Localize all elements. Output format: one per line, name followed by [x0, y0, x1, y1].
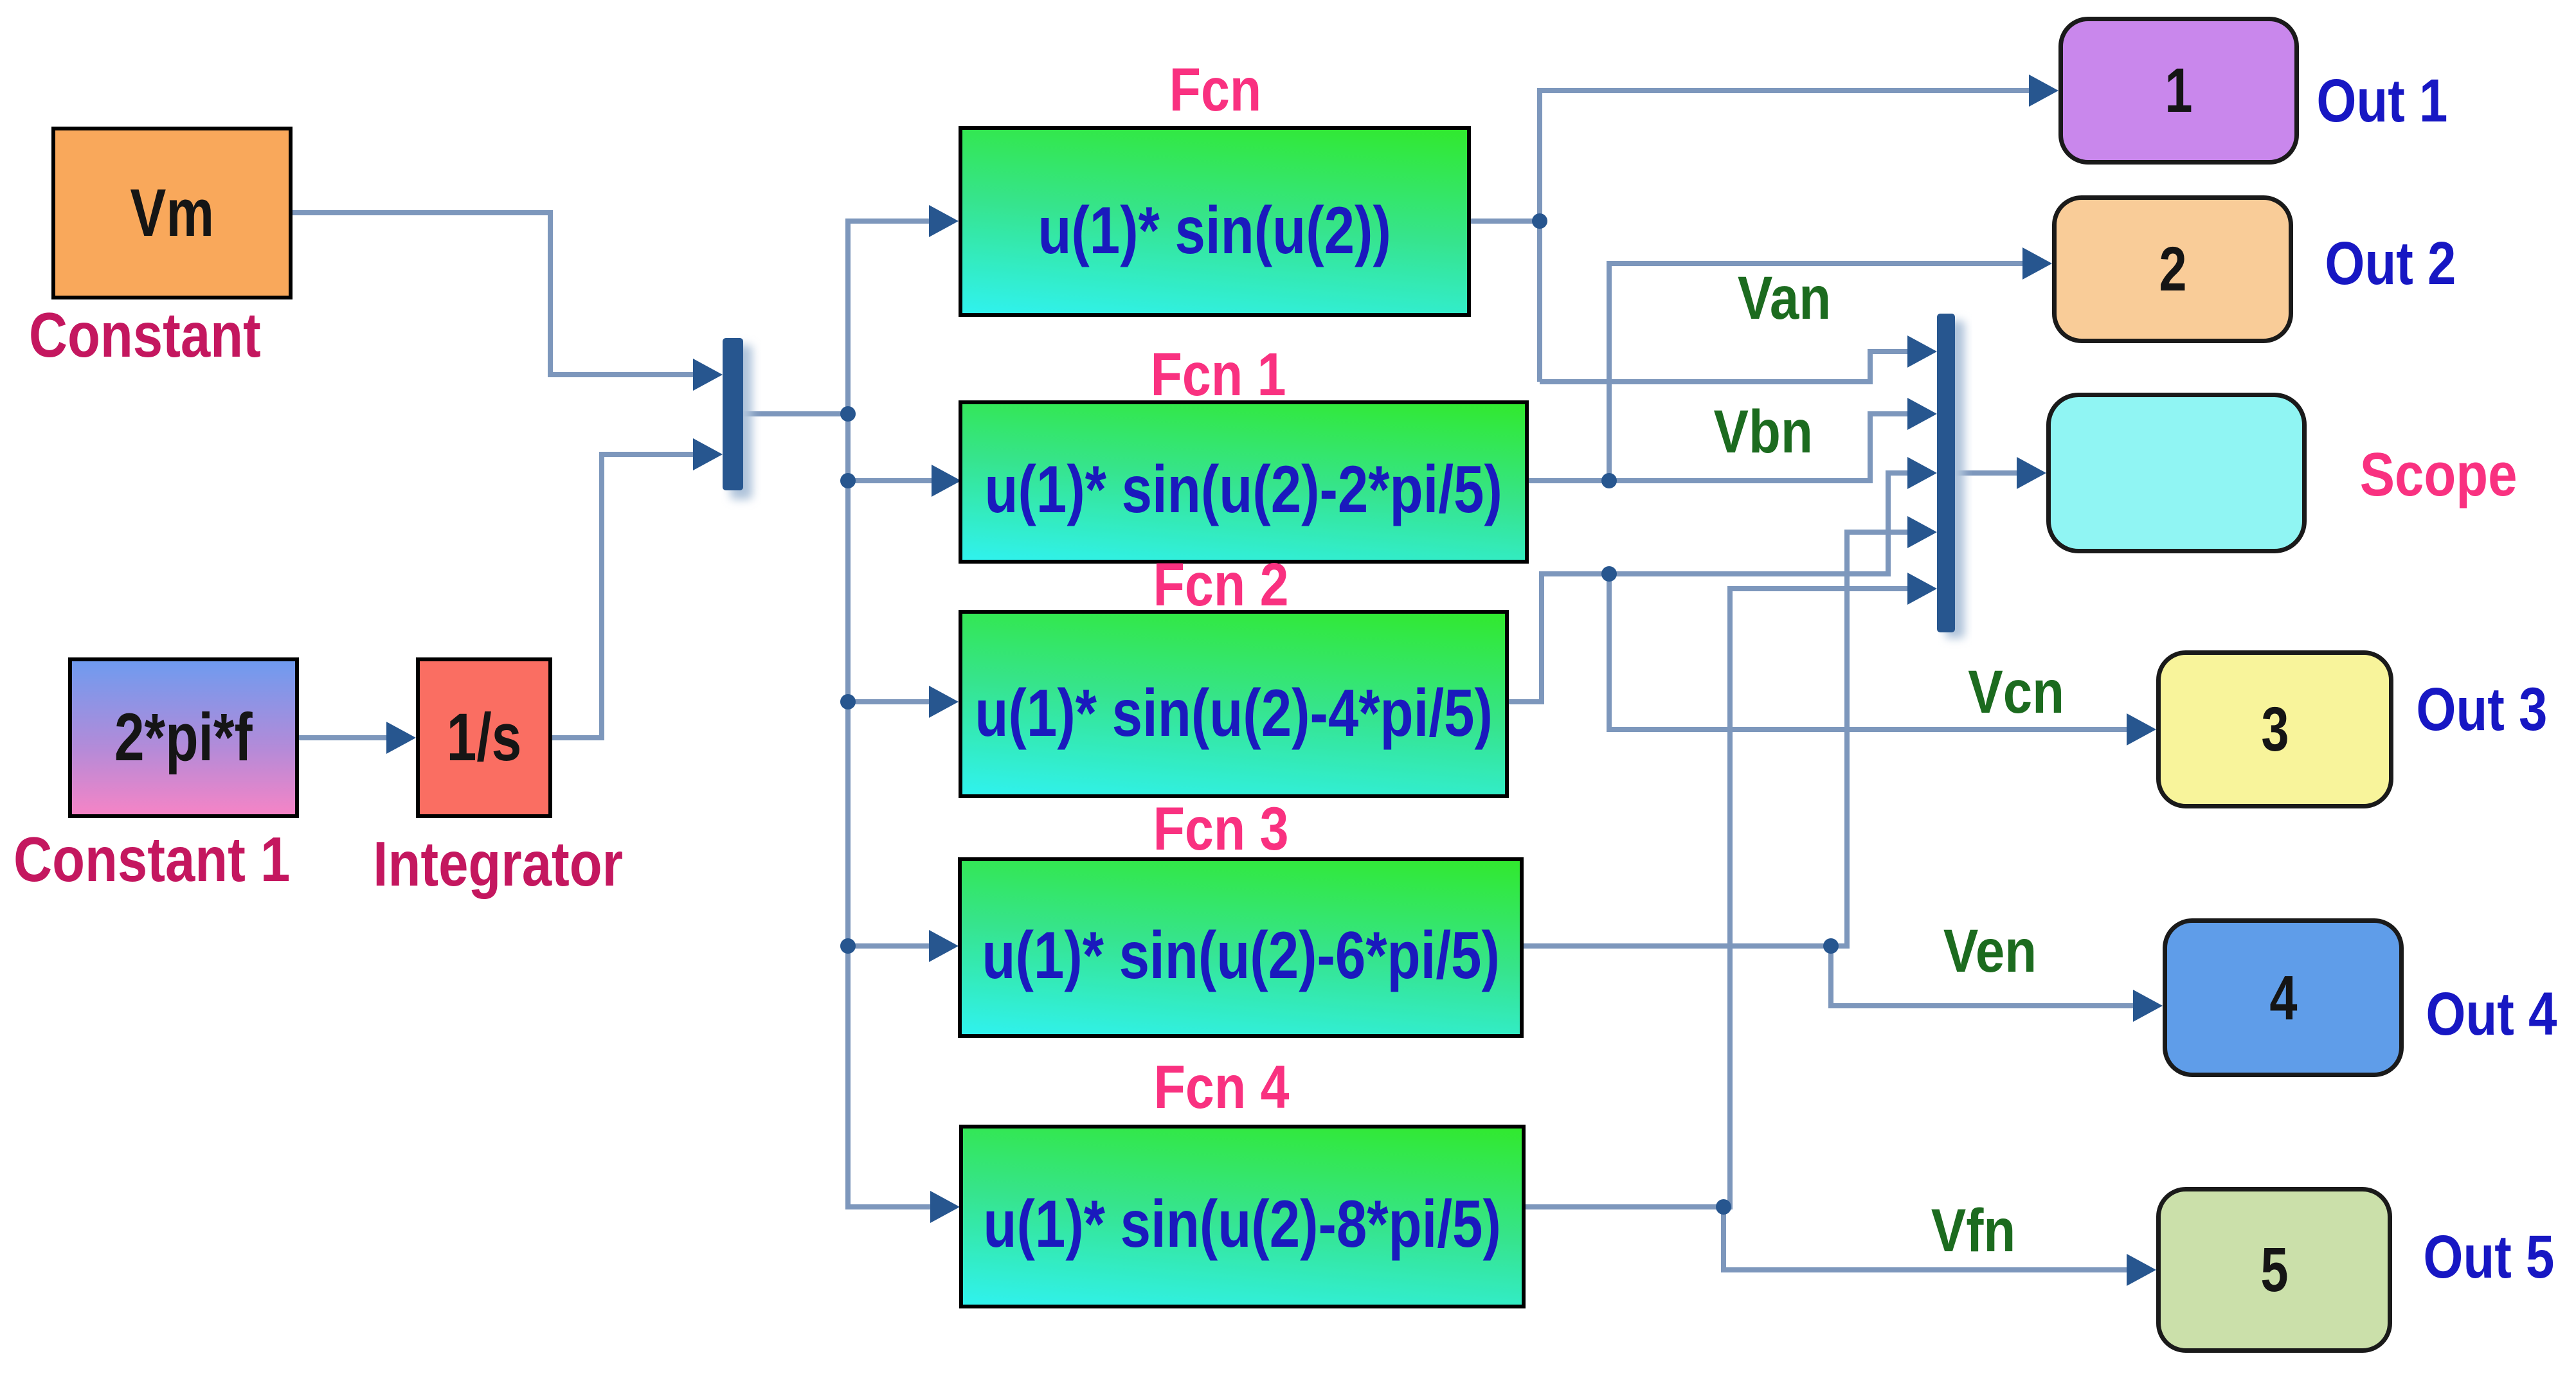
net label Vfn: [1919, 1200, 2028, 1262]
label Constant 1: [10, 828, 293, 891]
junction node Fcn3 branch: [840, 938, 856, 954]
wire Vm to Mux input1: [293, 213, 697, 375]
net label Vcn: [1961, 662, 2071, 723]
arrowhead into Fcn4: [930, 1191, 960, 1223]
wire distribution trunk with branch to Fcn and Fcn4: [848, 221, 932, 1207]
arrowhead into Fcn3: [929, 930, 959, 962]
junction node D (Fcn3/Out4): [1823, 938, 1839, 954]
fcn block Fcn4 u(1)*sin(u(2)-8*pi/5): [959, 1125, 1526, 1308]
wire Ven Fcn3 out to Mux2 input4: [1524, 532, 1910, 946]
fcn block Fcn1 u(1)*sin(u(2)-2*pi/5): [959, 400, 1529, 564]
junction node mux output: [840, 406, 856, 422]
outport Out3 block: [2156, 650, 2393, 808]
arrowhead into Fcn: [929, 205, 959, 237]
fcn block Fcn2 u(1)*sin(u(2)-4*pi/5): [959, 610, 1509, 798]
wire branch down to Out3: [1609, 574, 2129, 729]
net label Ven: [1935, 921, 2044, 982]
fcn block Fcn u(1)*sin(u(2)): [959, 126, 1471, 317]
arrowhead into Scope: [2017, 457, 2046, 489]
arrowhead into Out4: [2133, 990, 2163, 1022]
mux Mux2 shadow: [1945, 321, 1965, 638]
arrowhead into Out3: [2127, 713, 2156, 745]
wire branch to Fcn1: [848, 478, 934, 483]
net label Van: [1729, 268, 1839, 329]
arrowhead into Mux2 input5: [1907, 573, 1937, 605]
wire Vcn Fcn2 out to Mux2 input3: [1509, 473, 1910, 702]
integrator 1/s: [416, 657, 552, 818]
label Out 2: [2323, 232, 2458, 295]
wire Integrator to Mux input2: [552, 454, 697, 738]
arrowhead into Integrator: [386, 722, 416, 754]
label Fcn 4: [1096, 1057, 1347, 1118]
wire Vbn Fcn1 out to Mux2 input2: [1529, 414, 1910, 481]
label Constant: [23, 303, 267, 366]
arrowhead into Mux2 input3: [1907, 457, 1937, 489]
arrowhead into Out2: [2022, 247, 2052, 280]
arrowhead into Fcn1: [932, 465, 961, 497]
label Fcn: [1090, 60, 1340, 121]
arrowhead into Mux2 input1: [1907, 335, 1937, 368]
junction node A (Fcn/Out1/Van): [1532, 213, 1547, 229]
wire Van node A to Mux2 input1: [1540, 352, 1913, 382]
arrowhead into Mux2 input4: [1907, 516, 1937, 548]
label Fcn 1: [1093, 344, 1344, 406]
wire branch down to Out4: [1831, 946, 2136, 1006]
arrowhead into Out1: [2029, 75, 2058, 107]
wire branch down to Out5: [1724, 1207, 2129, 1270]
outport Out1 block: [2058, 17, 2299, 165]
constant Constant1 (2*pi*f): [68, 657, 299, 818]
wire Vfn Fcn4 out to Mux2 input5: [1526, 589, 1910, 1207]
arrowhead into Out5: [2127, 1254, 2156, 1286]
label Out 5: [2421, 1226, 2556, 1289]
label Scope: [2358, 443, 2519, 506]
mux Mux1 bar: [723, 338, 743, 490]
wire branch up to Out2: [1609, 263, 2025, 481]
arrowhead into Fcn2: [929, 686, 959, 718]
arrowhead into Mux2 input2: [1907, 398, 1937, 430]
mux Mux1 shadow: [730, 345, 752, 499]
wire Constant1 to Integrator: [299, 735, 392, 740]
label Out 3: [2414, 678, 2549, 741]
arrowhead into Mux input1: [693, 359, 723, 391]
wire branch to Fcn3: [848, 943, 930, 949]
junction node C (Fcn2/Out3): [1601, 566, 1617, 582]
net label Vbn: [1709, 402, 1818, 463]
fcn block Fcn3 u(1)*sin(u(2)-6*pi/5): [958, 857, 1524, 1038]
label Out 4: [2424, 983, 2559, 1046]
scope block: [2046, 393, 2307, 553]
junction node B (Fcn1/Out2): [1601, 473, 1617, 488]
outport Out2 block: [2052, 195, 2293, 343]
junction node Fcn2 branch: [840, 694, 856, 709]
wire Mux output to distribution node: [743, 411, 848, 416]
junction node E (Fcn4/Out5): [1716, 1199, 1731, 1215]
outport Out4 block: [2163, 918, 2404, 1077]
label Out 1: [2314, 69, 2449, 132]
wire Fcn output to node A: [1471, 219, 1540, 224]
junction node Fcn1 branch: [840, 473, 856, 488]
wire node A up to Out1: [1540, 91, 2031, 382]
label Fcn 3: [1095, 799, 1346, 860]
mux Mux2 bar: [1937, 314, 1955, 632]
outport Out5 block: [2156, 1187, 2392, 1353]
arrowhead into Mux input2: [693, 438, 723, 470]
wire Mux2 output to Scope: [1955, 470, 2019, 476]
wire branch to Fcn2: [848, 699, 930, 704]
label Integrator: [357, 832, 640, 895]
constant Vm: [51, 127, 293, 299]
label Fcn 2: [1095, 555, 1346, 616]
